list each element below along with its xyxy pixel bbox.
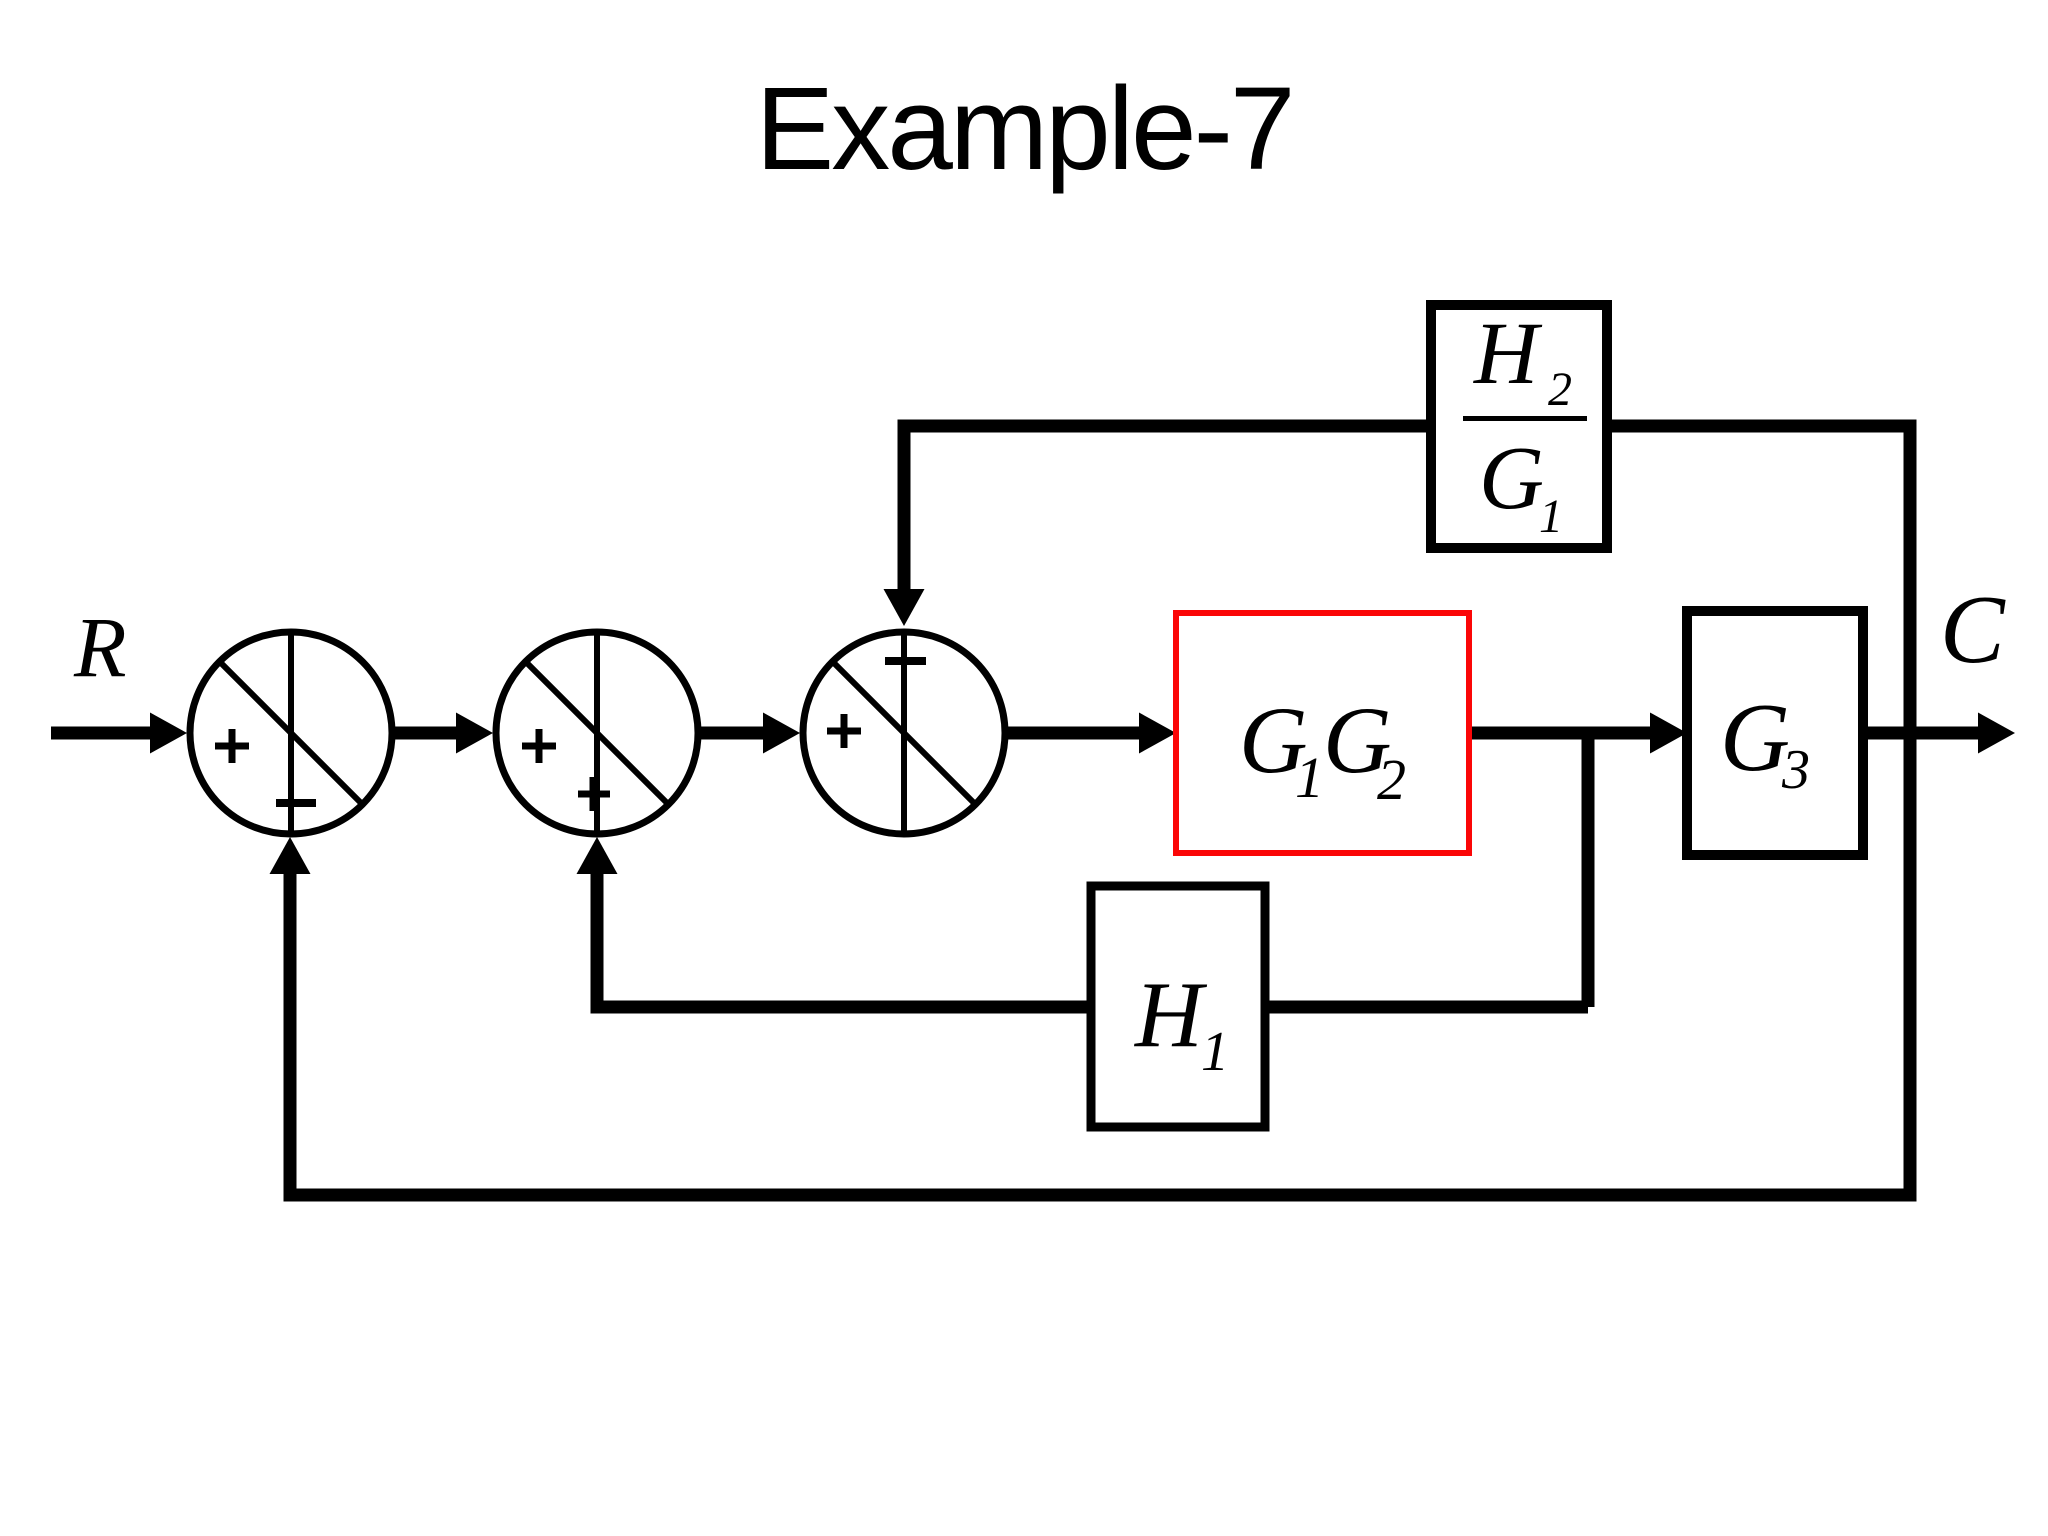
svg-text:Example-7: Example-7 xyxy=(755,63,1292,195)
svg-text:1: 1 xyxy=(1201,1021,1229,1083)
svg-text:2: 2 xyxy=(1377,747,1406,812)
svg-text:R: R xyxy=(73,599,127,695)
svg-text:1: 1 xyxy=(1539,490,1563,543)
svg-text:G: G xyxy=(1720,684,1790,791)
svg-text:G: G xyxy=(1479,429,1544,528)
svg-text:1: 1 xyxy=(1295,745,1324,810)
svg-text:H: H xyxy=(1473,305,1543,403)
svg-text:H: H xyxy=(1133,963,1208,1067)
svg-text:3: 3 xyxy=(1781,739,1810,801)
svg-text:C: C xyxy=(1940,576,2006,683)
svg-text:2: 2 xyxy=(1548,363,1572,416)
